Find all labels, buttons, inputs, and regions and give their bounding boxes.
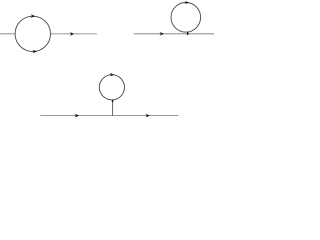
loop: bubble (self-energy loop) circle xyxy=(15,16,50,51)
vertex tick where tadpole loop meets the line xyxy=(187,32,189,35)
wire: left external line of bubble diagram xyxy=(0,33,15,35)
loop: tadpole circle above the stem xyxy=(99,75,124,100)
wire: vertical stem connecting line to loop xyxy=(112,100,114,116)
loop: tadpole circle sitting on the line xyxy=(171,2,201,32)
wire: right external line of bubble diagram xyxy=(50,33,97,35)
arrow on top of stem tadpole loop (pointing right) xyxy=(110,73,114,77)
wire: propagator line of top-right tadpole diagram xyxy=(134,33,214,35)
wire: long propagator line of bottom tadpole diagram xyxy=(40,115,178,117)
arrow on left half of bottom line xyxy=(75,114,80,118)
arrow on right external line xyxy=(70,32,74,36)
arrow on top of bubble loop (pointing right) xyxy=(31,14,35,18)
arrow on tadpole propagator line xyxy=(160,32,164,36)
vertex tick where stem meets the loop xyxy=(112,100,114,103)
arrow on right half of bottom line xyxy=(146,114,150,118)
arrow on top of tadpole loop (pointing right, slightly down) xyxy=(185,1,189,4)
arrow on bottom of bubble loop (pointing right) xyxy=(33,50,37,54)
